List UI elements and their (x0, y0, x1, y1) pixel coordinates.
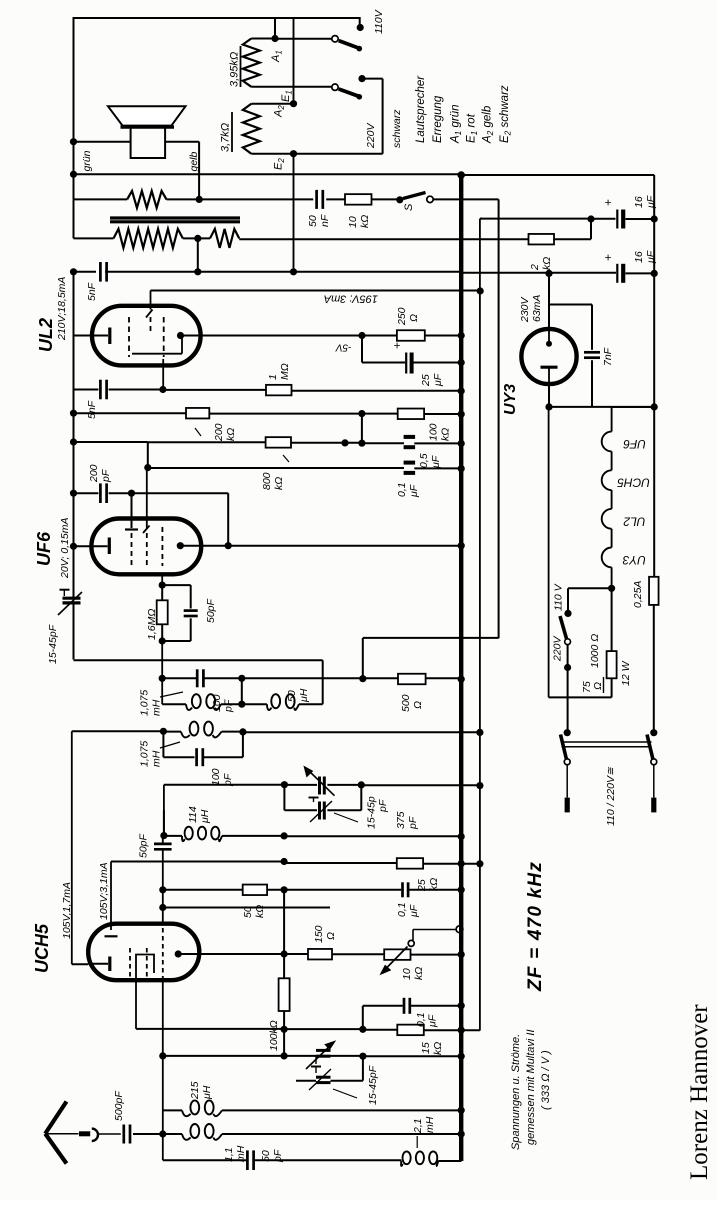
svg-text:100kΩ: 100kΩ (268, 1020, 280, 1051)
svg-text:( 333 Ω / V ): ( 333 Ω / V ) (540, 1050, 552, 1110)
wire RF line Y785 (163, 785, 165, 836)
node tap-B+ junction (194, 268, 201, 275)
svg-text:50: 50 (286, 690, 298, 702)
node triode grid junction (281, 858, 288, 865)
svg-text:Lautsprecher: Lautsprecher (415, 75, 427, 143)
svg-text:kΩ: kΩ (440, 428, 452, 441)
svg-text:16: 16 (633, 196, 645, 208)
node 25k V junction (476, 860, 483, 867)
resistor 1MOhm (266, 385, 292, 396)
wire right frame top (461, 174, 654, 176)
node 25uF bus (458, 359, 465, 366)
node UY3 anode junction (545, 270, 552, 277)
switch mains-tap 110V terminal (359, 17, 361, 26)
svg-text:Lorenz Hannover: Lorenz Hannover (686, 1004, 713, 1180)
svg-text:pF: pF (407, 816, 419, 830)
svg-text:mH: mH (151, 699, 163, 716)
svg-text:UF6: UF6 (623, 437, 646, 451)
wire rail seg4 (73, 442, 75, 598)
node 16uF-1 junction (587, 215, 594, 222)
tube UCH5 grids (129, 948, 131, 977)
switch arm S2 (332, 84, 338, 90)
svg-text:15-45pF: 15-45pF (47, 624, 59, 664)
node 1M bus (458, 387, 465, 394)
svg-text:25: 25 (420, 374, 432, 387)
wire osc grid line (163, 907, 330, 909)
svg-text:105V;3,1mA: 105V;3,1mA (98, 862, 110, 920)
node bus top (457, 171, 465, 179)
svg-text:UCH5: UCH5 (617, 476, 650, 490)
node UF6 anode junction (225, 542, 232, 549)
node 200pF rail tap (70, 490, 77, 497)
svg-text:pF: pF (377, 799, 389, 813)
tube UF6 anode (177, 542, 184, 549)
capacitor 50nF (315, 190, 318, 209)
wire 220V terminal lead (362, 78, 383, 80)
svg-text:μF: μF (645, 250, 657, 264)
capacitor 7nF (549, 304, 592, 306)
node E2 (290, 150, 297, 157)
wire feedback corner (362, 638, 364, 679)
wire 1000 bottom loop (611, 678, 613, 697)
svg-text:pF: pF (223, 699, 235, 713)
node 15k bus (458, 1027, 465, 1034)
wire A2 lead (251, 103, 293, 105)
svg-text:μF: μF (408, 904, 420, 918)
node wiper bus ring (456, 926, 463, 933)
wire S to feedback riser (433, 198, 498, 200)
node 15k junction (359, 1026, 366, 1033)
wire V vertical (479, 219, 481, 1031)
node B+ rail tap (70, 268, 77, 275)
svg-text:μH: μH (201, 1085, 213, 1100)
resistor hum-bucking winding (127, 191, 166, 208)
tube UCH5 envelope (88, 924, 199, 981)
svg-text:+: + (390, 342, 404, 349)
node gruen tap (70, 138, 77, 145)
wire tap drop (197, 238, 199, 271)
wire RF line to 114uH corner (163, 810, 165, 835)
resistor 500Ohm (398, 674, 426, 685)
wire grid return corner (74, 659, 323, 661)
tube UCH5 anode (175, 950, 182, 957)
svg-text:1000 Ω: 1000 Ω (589, 634, 601, 668)
svg-text:15-45p: 15-45p (366, 796, 378, 829)
svg-text:105V,1,7mA: 105V,1,7mA (61, 882, 73, 939)
wire cathode-bias drop (361, 336, 363, 363)
svg-text:15-45pF: 15-45pF (367, 1065, 379, 1105)
svg-text:200: 200 (213, 423, 225, 442)
wire grid return drop (322, 660, 324, 704)
capacitor 200pF (99, 483, 102, 503)
wire 220V down (567, 668, 569, 733)
wire anode to bus (228, 545, 461, 547)
svg-text:1,075: 1,075 (139, 741, 151, 767)
label 375pF (334, 813, 358, 822)
svg-text:Ω: Ω (325, 932, 337, 940)
mains switch pole B (650, 729, 657, 736)
node IF2 left (160, 728, 167, 735)
fuse 0,25A (649, 577, 659, 605)
coil 1,075mH IF1 (162, 703, 186, 705)
svg-text:A2 gelb: A2 gelb (482, 105, 496, 144)
wire rail Y174 (74, 173, 462, 175)
wire UY3 cathode lead (548, 384, 550, 407)
svg-text:16: 16 (633, 251, 645, 263)
svg-text:1,075: 1,075 (139, 690, 151, 716)
tube UF6 g1 cap bar (125, 528, 138, 530)
svg-text:50pF: 50pF (138, 833, 150, 858)
wire A1 lead (251, 38, 275, 40)
wire gelb drop (198, 142, 200, 200)
wire A1 riser (274, 18, 276, 39)
svg-text:50: 50 (307, 215, 319, 227)
node 0,5uF bus (458, 440, 465, 447)
svg-text:μF: μF (432, 373, 444, 387)
node 250 bus (458, 332, 465, 339)
node 0,1uF bus (458, 465, 465, 472)
node E2 junction on B+ line (290, 268, 297, 275)
svg-text:215: 215 (189, 1081, 201, 1100)
wire padder loop (283, 785, 285, 811)
svg-text:UF6: UF6 (34, 531, 54, 566)
svg-text:195V: 3mA: 195V: 3mA (324, 293, 378, 305)
switch arm S1 (332, 36, 338, 42)
node osc tank bus (458, 1053, 465, 1060)
antenna plug pin (79, 1131, 90, 1136)
coil 2,1mH (401, 1161, 403, 1166)
svg-text:MΩ: MΩ (279, 363, 291, 380)
node anode junction (358, 332, 365, 339)
svg-text:gemessen mit Multavi II: gemessen mit Multavi II (525, 1029, 537, 1145)
rectifier UY3 cathode (541, 366, 558, 369)
svg-text:0,1: 0,1 (415, 1012, 427, 1027)
svg-text:200: 200 (88, 464, 100, 483)
tube UCH5 cathode (108, 957, 111, 972)
svg-text:μF: μF (645, 195, 657, 209)
switch voltage selector (560, 616, 567, 639)
trimmer RF arrow (308, 770, 335, 796)
svg-text:2,1: 2,1 (412, 1118, 424, 1134)
wire anode junction drop (283, 890, 285, 954)
svg-text:150: 150 (313, 925, 325, 943)
svg-text:-5V: -5V (335, 342, 352, 353)
svg-text:ZF = 470 kHz: ZF = 470 kHz (525, 861, 546, 992)
capacitor 0,1uF if (401, 882, 404, 897)
wire left rail mid (73, 199, 75, 238)
resistor 50kOhm (243, 885, 267, 896)
wire cathode to frame (549, 406, 654, 408)
wire E1 riser (293, 18, 295, 104)
svg-text:230V: 230V (519, 296, 531, 323)
wire osc grid drop (162, 977, 164, 1056)
svg-text:10: 10 (401, 968, 413, 980)
svg-text:15: 15 (420, 1042, 432, 1054)
svg-text:Erregung: Erregung (432, 95, 444, 143)
wire g1 top lead (131, 493, 133, 528)
svg-text:μF: μF (430, 455, 442, 469)
capacitor 0,5uF (404, 435, 416, 439)
tube UF6 grid dashes a (131, 533, 133, 566)
node 800k-line junction b (358, 440, 365, 447)
wire IF2 to right (243, 731, 480, 733)
node 114uH right (281, 832, 288, 839)
tube UL2 envelope (92, 306, 201, 366)
tube UL2 cathode (108, 328, 111, 345)
svg-text:Ω: Ω (412, 701, 424, 709)
wire 200pF line (74, 492, 99, 494)
resistor 3,7kOhm field winding (243, 104, 260, 154)
wire secondary line Y199 (74, 198, 128, 200)
svg-text:3,95kΩ: 3,95kΩ (229, 52, 241, 87)
svg-text:500pF: 500pF (113, 1091, 125, 1121)
svg-text:0,25A: 0,25A (632, 581, 644, 608)
capacitor 16uF-1 electrolytic (616, 210, 618, 229)
wire primary line to 2k (239, 238, 528, 240)
wire to 1M (163, 389, 266, 391)
node antenna junction (159, 1130, 166, 1137)
tube UF6 cathode (108, 538, 111, 555)
svg-text:kΩ: kΩ (359, 215, 371, 228)
rectifier UY3 anode pin (548, 330, 550, 342)
svg-text:UY3: UY3 (502, 384, 519, 415)
svg-text:gelb: gelb (188, 151, 200, 171)
rectifier UY3 envelope (521, 329, 576, 384)
node rail tap Y174 (70, 171, 77, 178)
transformer primary winding a (114, 229, 183, 248)
wire UY3 cathode drop (548, 407, 550, 698)
switch S tone (396, 196, 403, 203)
wire 50pF ant line (163, 1159, 246, 1161)
node IF2 V junction (476, 729, 483, 736)
wire UL2 g3 drop (162, 359, 164, 390)
svg-text:E1 rot: E1 rot (466, 113, 480, 143)
label 800kOhm leader (283, 455, 289, 462)
svg-text:114: 114 (187, 806, 199, 823)
resistor 3,95kOhm field winding (243, 39, 260, 87)
label 15-45pF osc (333, 1089, 357, 1098)
resistor 100kOhm osc (279, 978, 290, 1011)
svg-text:3,7kΩ: 3,7kΩ (220, 123, 232, 152)
potentiometer 10kOhm (384, 949, 410, 960)
svg-text:0,1: 0,1 (396, 902, 408, 917)
resistor 800kOhm (266, 437, 291, 448)
wire rail seg3 (73, 272, 75, 442)
tube UCH5 internal box (136, 955, 154, 980)
switch 220V terminal (358, 75, 365, 82)
wire tube bottom lead (135, 979, 137, 1029)
svg-text:220V: 220V (365, 122, 377, 149)
trimmer 15-45pF osc (316, 1049, 331, 1052)
wire Y836 line (164, 835, 182, 837)
resistor 15kOhm (397, 1025, 424, 1036)
svg-text:210V;18,5mA: 210V;18,5mA (56, 277, 68, 341)
svg-text:63mA: 63mA (531, 295, 543, 322)
svg-text:kΩ: kΩ (541, 257, 553, 270)
capacitor 0,1uF g2 (404, 461, 416, 465)
heater chain (612, 406, 655, 408)
capacitor 50pF avc (162, 584, 191, 586)
svg-text:375: 375 (395, 811, 407, 829)
tube UL2 anode (177, 332, 184, 339)
node avc junction (159, 675, 166, 682)
node UF6 anode bus (458, 542, 465, 549)
capacitor 500pF (122, 1125, 125, 1144)
svg-text:A1 grün: A1 grün (450, 105, 464, 145)
wire gelb (165, 141, 199, 143)
wire g2 feed line Y468 (148, 467, 404, 469)
node RF V junction (476, 782, 483, 789)
tube UL2 internal tie (132, 353, 182, 355)
wire g3 drop into tube (146, 468, 148, 528)
node heater chain frame (651, 403, 658, 410)
node g2 line junction (477, 287, 484, 294)
wire selector to 220V (567, 645, 569, 668)
svg-text:10: 10 (347, 216, 359, 228)
svg-text:mH: mH (151, 750, 163, 767)
wire cathode lead (72, 963, 88, 965)
capacitor 100pF IF1 (196, 669, 199, 687)
trimmer 15-45pF IF (63, 597, 81, 600)
wire 200k line (74, 412, 187, 414)
node UY3 cathode junction (545, 403, 552, 410)
wire B+ line right (462, 272, 617, 274)
node UF6 g1 (128, 490, 135, 497)
bus chassis rail (459, 174, 463, 1161)
mains plug pin B (653, 765, 655, 798)
svg-text:1,6MΩ: 1,6MΩ (146, 609, 158, 640)
wire RF to V (361, 784, 480, 786)
svg-text:UL2: UL2 (36, 318, 56, 352)
wire avc to bus (242, 677, 462, 679)
resistor 1000Ohm 12W (607, 651, 617, 678)
node 500 bus (458, 676, 465, 683)
svg-text:5nF: 5nF (86, 282, 98, 301)
node osc tank a (159, 1052, 166, 1059)
capacitor 375pF padder (318, 802, 321, 820)
svg-text:110V: 110V (373, 9, 385, 34)
wire tone line (199, 198, 313, 200)
wire ant line (162, 1110, 164, 1160)
wire 0,1uF line (284, 889, 401, 891)
node 100k osc bottom (281, 1026, 288, 1033)
wire 114uH to bus (284, 835, 461, 837)
node E1 (290, 100, 297, 107)
wire 800k corner drop (147, 442, 149, 468)
rectifier UY3 anode lead (548, 273, 550, 330)
node Y836 bus (458, 833, 465, 840)
coil 1,1mH (163, 1133, 182, 1135)
coil 114uH (182, 836, 185, 841)
node pot bus (458, 951, 465, 958)
wire anode to 250 (362, 335, 397, 337)
coil 1,075mH IF2 (181, 732, 190, 738)
svg-text:100: 100 (210, 768, 222, 786)
wire 3,95k bottom (251, 86, 335, 88)
resistor 1,6MOhm (157, 600, 168, 624)
wire primary left lead (74, 237, 114, 239)
svg-text:7nF: 7nF (602, 347, 614, 366)
wire osc anode line (136, 1028, 284, 1030)
node coil mid (238, 701, 245, 708)
node osc tank b (281, 1052, 288, 1059)
svg-text:20V; 0,15mA: 20V; 0,15mA (59, 517, 71, 579)
node 50k right (281, 886, 288, 893)
antenna symbol (45, 1102, 66, 1134)
wire 50k line (159, 886, 166, 893)
tube UL2 grid1 dashes (128, 317, 130, 357)
node RF a (281, 781, 288, 788)
loudspeaker LS (108, 106, 186, 125)
mains plug pin A (566, 765, 568, 798)
wire UF6 g3 to 1,6M (161, 575, 163, 586)
svg-text:μH: μH (199, 809, 211, 824)
tube UL2 grid3 dashes (163, 317, 165, 357)
wire avc line Y678 (161, 641, 163, 704)
node 110V tap (564, 610, 571, 617)
svg-text:2: 2 (529, 264, 541, 271)
svg-text:grün: grün (81, 150, 93, 171)
svg-text:250: 250 (396, 307, 408, 326)
wire IF2 line (72, 730, 164, 732)
wire left rail upper (73, 17, 75, 199)
label 200kOhm leader (195, 428, 201, 436)
capacitor 0,1uF osc (362, 1006, 364, 1030)
wire 110V tap line (568, 587, 612, 589)
capacitor 5nF grid (99, 380, 102, 400)
wire osc coil line (162, 1056, 164, 1111)
capacitor 16uF-2 electrolytic (616, 264, 618, 283)
capacitor 15-45pF osc padder (315, 1056, 317, 1064)
node A1 (271, 35, 278, 42)
wire top frame rail (74, 17, 360, 19)
resistor 100kOhm g2 (398, 409, 424, 420)
wire cathode return left (71, 731, 73, 964)
node 16uF-2 frame (651, 270, 658, 277)
mains switch coupling bar (562, 741, 652, 743)
mains switch pole A (564, 729, 571, 736)
svg-text:0,5: 0,5 (418, 453, 430, 468)
svg-text:50pF: 50pF (205, 598, 217, 623)
resistor 150Ohm (308, 949, 332, 960)
node 0,1uF osc bus (458, 1002, 465, 1009)
trimmer 15-45pF RF (318, 777, 321, 795)
svg-text:220V: 220V (552, 635, 564, 662)
wire 16uF-1 line (480, 218, 591, 220)
wire bias line (362, 362, 405, 364)
svg-text:110 V: 110 V (553, 583, 565, 611)
wire E2 drop (293, 154, 295, 272)
node primary tap (194, 235, 201, 242)
svg-text:1: 1 (267, 374, 279, 380)
capacitor 50pF ant (246, 1150, 249, 1170)
node osc grid junction (159, 904, 166, 911)
node IF2 right (239, 728, 246, 735)
node 25k bus (458, 860, 465, 867)
wire 220V drop (382, 79, 384, 154)
svg-text:kΩ: kΩ (273, 477, 285, 490)
svg-text:+: + (601, 254, 615, 261)
wire heater chain bottom (608, 585, 615, 592)
tube UL2 grid2 lead (150, 317, 152, 332)
svg-text:12 W: 12 W (620, 660, 632, 686)
node 1,6M bottom (159, 637, 166, 644)
transformer core (110, 216, 240, 219)
svg-text:UCH5: UCH5 (32, 923, 52, 973)
svg-text:Ω: Ω (408, 314, 420, 322)
svg-text:800: 800 (261, 472, 273, 490)
svg-text:μF: μF (427, 1014, 439, 1028)
